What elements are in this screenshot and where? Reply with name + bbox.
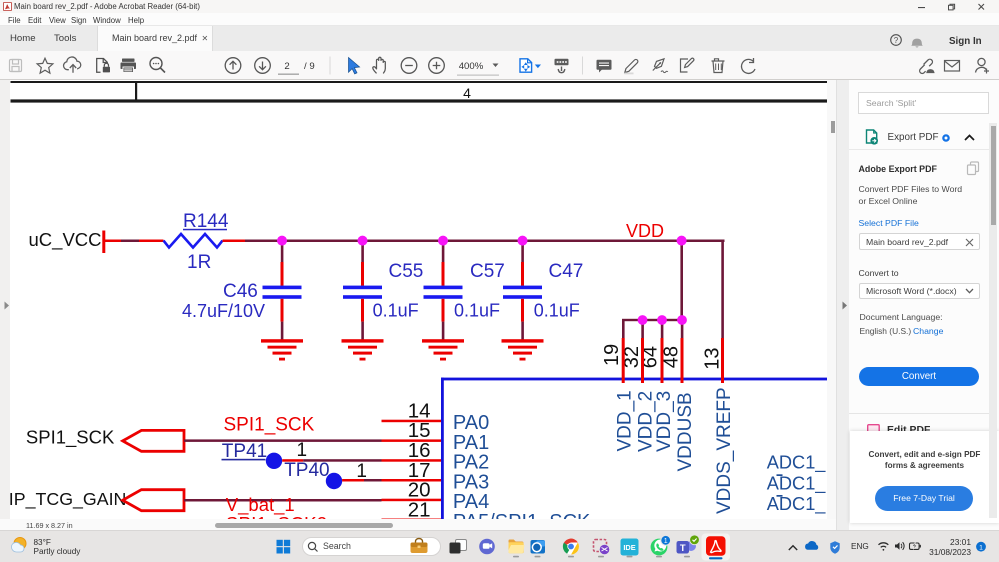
svg-text:C47: C47 <box>549 261 584 282</box>
svg-text:V_bat_1: V_bat_1 <box>226 494 295 516</box>
svg-text:ADC1_IN1: ADC1_IN1 <box>767 473 827 494</box>
svg-text:13: 13 <box>702 347 724 369</box>
svg-text:R144: R144 <box>183 211 229 232</box>
svg-text:VDD: VDD <box>626 221 664 241</box>
svg-text:PA3: PA3 <box>453 471 489 493</box>
svg-text:0.1uF: 0.1uF <box>454 301 500 321</box>
svg-text:0.1uF: 0.1uF <box>534 301 580 321</box>
svg-text:VDD_1: VDD_1 <box>614 390 635 451</box>
svg-text:T: T <box>680 542 686 553</box>
svg-text:21: 21 <box>408 499 431 520</box>
svg-text:4: 4 <box>463 85 471 101</box>
svg-text:TP41: TP41 <box>222 441 267 462</box>
svg-text:1: 1 <box>297 440 308 461</box>
svg-text:VDD_3: VDD_3 <box>654 391 675 452</box>
svg-text:IDE: IDE <box>623 543 635 552</box>
svg-text:VDDS_VREFP: VDDS_VREFP <box>714 387 735 514</box>
svg-text:?: ? <box>894 36 899 45</box>
svg-text:0.1uF: 0.1uF <box>373 301 419 321</box>
svg-text:TP40: TP40 <box>284 460 329 481</box>
svg-text:SPI1_SCK: SPI1_SCK <box>224 414 315 435</box>
svg-text:19: 19 <box>601 344 623 366</box>
svg-text:uC_VCC: uC_VCC <box>29 229 102 251</box>
svg-text:1: 1 <box>356 461 367 482</box>
svg-text:ADC1_IN0: ADC1_IN0 <box>767 453 827 474</box>
svg-text:1: 1 <box>664 538 668 545</box>
svg-text:1: 1 <box>979 544 983 551</box>
svg-text:PA5/SPI1_SCK: PA5/SPI1_SCK <box>453 511 591 519</box>
svg-text:1R: 1R <box>187 252 211 273</box>
svg-text:C46: C46 <box>223 281 258 302</box>
svg-text:PA4: PA4 <box>453 491 489 513</box>
svg-text:PA0: PA0 <box>453 412 489 434</box>
svg-text:48: 48 <box>660 346 682 368</box>
svg-text:PA1: PA1 <box>453 432 489 454</box>
svg-text:PA2: PA2 <box>453 452 489 474</box>
svg-text:C57: C57 <box>470 261 505 282</box>
svg-text:C55: C55 <box>389 261 424 282</box>
svg-text:400%: 400% <box>459 61 484 72</box>
svg-text:IP_TCG_GAIN: IP_TCG_GAIN <box>10 489 126 510</box>
svg-text:4.7uF/10V: 4.7uF/10V <box>182 301 265 321</box>
svg-text:2: 2 <box>284 61 289 72</box>
svg-text:VDDUSB: VDDUSB <box>675 392 696 471</box>
svg-text:/ 9: / 9 <box>304 61 315 72</box>
svg-text:Sign In: Sign In <box>949 36 982 47</box>
svg-text:ADC1_IN2: ADC1_IN2 <box>767 494 827 515</box>
svg-text:SPI1_SCK: SPI1_SCK <box>26 427 115 449</box>
